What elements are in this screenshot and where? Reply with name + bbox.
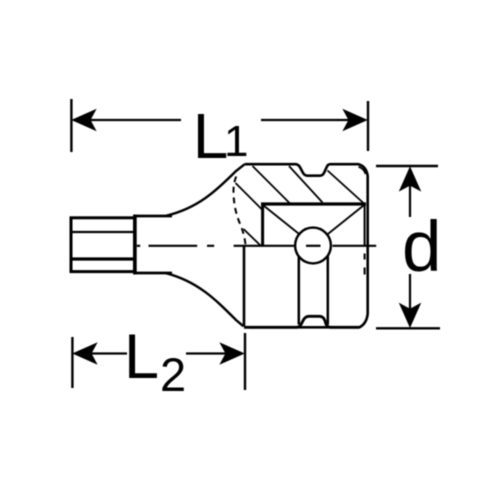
inner right edge hidden dashes below centerline (364, 254, 366, 275)
hatch line A (253, 166, 291, 204)
bit-to-socket junction line (133, 215, 137, 275)
L2 dimension: left extension tick (71, 337, 73, 388)
L1 dimension: left extension tick (70, 99, 72, 152)
svg-text:L: L (124, 322, 159, 392)
L2 left arrowhead (74, 343, 97, 363)
hex bit outline (70, 215, 135, 275)
svg-text:2: 2 (160, 348, 186, 401)
d down arrowhead (400, 304, 420, 327)
X diagonal from top-right corner (314, 206, 364, 246)
L2 dimension line left segment (89, 352, 127, 354)
centerline dash-dot left of body (137, 245, 214, 247)
socket nose shaft bottom edge (134, 272, 172, 275)
d dimension vertical line upper segment (409, 182, 411, 217)
L1 dimension line left segment (88, 119, 181, 121)
X diagonal from top-left corner (264, 206, 314, 246)
body top edge with groove notch (245, 164, 368, 327)
L1 dimension line right segment (261, 119, 352, 121)
groove band right vertical (327, 252, 330, 325)
inner square top edge (drive hole) (261, 202, 366, 205)
inner square left edge (261, 203, 264, 247)
top-right corner inner line (359, 167, 366, 174)
flare curve top (166, 164, 245, 216)
ball detent circle (295, 228, 331, 264)
L1 left arrowhead (73, 110, 96, 130)
svg-text:1: 1 (224, 117, 248, 166)
lower-left corner + left edge of square drive (243, 246, 246, 327)
d dimension vertical line lower segment (409, 274, 411, 312)
L1 right extension tick (367, 101, 369, 151)
hatch line D (236, 183, 263, 210)
d up arrowhead (400, 168, 420, 191)
hex bit flat line lower (70, 257, 134, 260)
inner right edge line (square hole back edge) solid above centerline (364, 204, 366, 246)
body bottom edge with groove notch (244, 316, 359, 327)
svg-text:d: d (402, 208, 442, 287)
L2 right arrowhead (221, 343, 244, 363)
d bottom extension tick (376, 327, 440, 329)
centerline dash inside ball (306, 245, 321, 247)
hex bit flat line upper (70, 231, 134, 233)
hatch line B (289, 166, 323, 203)
socket nose shaft top edge (134, 215, 172, 218)
hatch line E (244, 229, 261, 246)
groove band left vertical (298, 252, 301, 325)
section boundary line at centerline (solid) (234, 245, 377, 247)
L1 right arrowhead (344, 110, 367, 130)
svg-text:L: L (193, 100, 229, 172)
L2 dimension line right segment (186, 352, 229, 354)
dashed transition curve in section (233, 177, 245, 246)
hatch line C (328, 171, 365, 204)
d dimension: top extension tick (376, 165, 438, 167)
L2 right extension tick (244, 333, 246, 390)
flare curve bottom (166, 273, 244, 326)
